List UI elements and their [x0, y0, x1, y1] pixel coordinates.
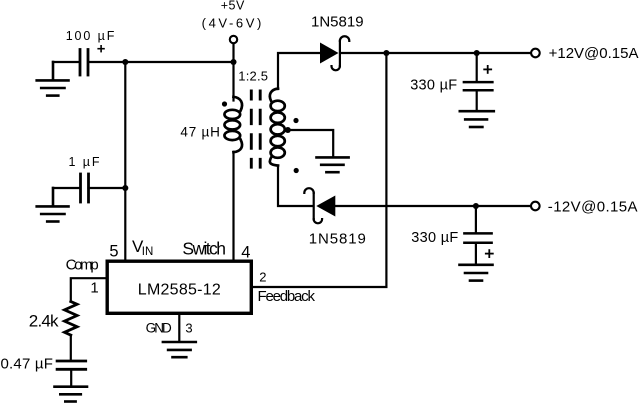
- wire input rail top-left: [89, 61, 234, 63]
- ground G1 (C1): [37, 62, 69, 96]
- node C4 junction: [473, 203, 479, 209]
- wire +5V stem: [232, 44, 234, 62]
- capacitor C3 330uF top: [464, 53, 493, 111]
- ground G3 (IC GND): [163, 342, 196, 357]
- C1 plus polarity mark: [98, 46, 104, 52]
- capacitor C4 330uF bottom: [464, 206, 491, 264]
- terminal +5V input circle: [230, 36, 237, 43]
- svg-text:0.47 µF: 0.47 µF: [1, 356, 54, 373]
- capacitor C2 1uF plates: [81, 174, 89, 202]
- wire C1 left lead: [53, 61, 79, 63]
- ground G7 (center tap): [317, 157, 349, 172]
- wire secondary top lead: [278, 53, 321, 89]
- svg-text:1 µF: 1 µF: [69, 155, 102, 169]
- svg-text:1:2.5: 1:2.5: [238, 69, 268, 84]
- node C1 junction: [122, 59, 128, 65]
- svg-text:Feedback: Feedback: [258, 288, 316, 305]
- svg-text:100 µF: 100 µF: [66, 29, 117, 43]
- svg-text:LM2585-12: LM2585-12: [138, 281, 221, 298]
- svg-text:1: 1: [90, 279, 98, 296]
- svg-text:5: 5: [109, 243, 118, 261]
- ground G5 (C3): [460, 111, 494, 127]
- resistor R1 2.4k: [65, 302, 78, 336]
- transformer T1 secondary phase dot lower: [294, 168, 299, 173]
- wire top output rail: [341, 52, 531, 54]
- wire Comp pin 1 lead: [71, 278, 107, 301]
- wire R1 to C5: [70, 335, 72, 360]
- svg-text:1N5819: 1N5819: [309, 231, 367, 248]
- wire primary upper segment: [232, 62, 234, 101]
- ground G2 (C2): [37, 188, 69, 222]
- svg-text:2.4k: 2.4k: [29, 311, 59, 330]
- transformer T1 secondary phase dot upper: [293, 118, 298, 123]
- wire left vertical to VIN pin 5: [124, 62, 126, 260]
- wire C2 right lead: [89, 187, 126, 189]
- svg-text:GND: GND: [146, 321, 172, 336]
- svg-text:+12V@0.15A: +12V@0.15A: [549, 45, 639, 62]
- ground G6 (C4): [460, 265, 493, 281]
- C3 plus polarity mark: [484, 66, 491, 73]
- node feedback sense junction: [383, 50, 389, 56]
- transformer T1 secondary winding: [270, 89, 285, 166]
- svg-text:4: 4: [241, 243, 250, 261]
- node C2 junction: [122, 185, 128, 191]
- C4 plus polarity mark: [486, 250, 493, 257]
- svg-text:47 µH: 47 µH: [180, 124, 220, 139]
- transformer T1 core dashed lines: [251, 90, 260, 169]
- wire bottom output rail: [335, 205, 530, 207]
- node C3 junction: [474, 50, 480, 56]
- terminal -12V output circle: [531, 202, 540, 211]
- svg-text:330 µF: 330 µF: [411, 230, 458, 246]
- svg-text:Switch: Switch: [182, 238, 225, 258]
- capacitor C1 100uF plates: [80, 50, 88, 76]
- IC U1 LM2585-12 body: [107, 261, 251, 313]
- wire center tap lead: [288, 130, 333, 157]
- wire C5 to ground: [70, 369, 72, 386]
- wire secondary bottom lead: [278, 166, 313, 207]
- svg-text:IN: IN: [142, 246, 154, 258]
- node +5V rail junction: [230, 59, 236, 65]
- terminal +12V output circle: [531, 49, 540, 58]
- diode D1 1N5819 (top): [320, 36, 349, 70]
- svg-text:-12V@0.15A: -12V@0.15A: [548, 198, 638, 215]
- capacitor C5 0.47uF plates: [57, 361, 86, 369]
- svg-text:1N5819: 1N5819: [311, 14, 364, 31]
- svg-text:330 µF: 330 µF: [410, 78, 457, 94]
- node center tap junction: [285, 127, 291, 133]
- svg-text:3: 3: [185, 321, 192, 336]
- diode D2 1N5819 (bottom): [304, 188, 335, 223]
- ground G4 (C5): [55, 387, 88, 402]
- wire feedback vertical: [254, 53, 386, 287]
- wire GND pin 3 lead: [178, 313, 180, 342]
- wire C2 left lead: [53, 187, 80, 189]
- svg-text:Comp: Comp: [66, 257, 99, 274]
- svg-text:(4V-6V): (4V-6V): [202, 16, 264, 31]
- transformer T1 primary phase dot: [222, 101, 227, 106]
- transformer T1 primary winding 47uH: [224, 97, 242, 152]
- svg-text:+5V: +5V: [221, 0, 245, 13]
- wire primary lower segment to Switch pin 4: [232, 152, 234, 260]
- svg-text:2: 2: [259, 269, 266, 284]
